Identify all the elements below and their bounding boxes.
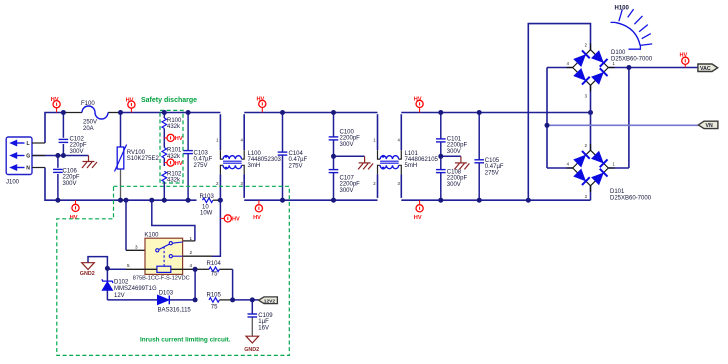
capacitor C107: [329, 170, 360, 201]
wire D100 top AC to neutral rail: [528, 24, 590, 201]
svg-text:J100: J100: [6, 180, 20, 186]
wire G earth net from connector: [32, 155, 89, 157]
capacitor C101: [436, 113, 467, 170]
wire relay bypass pin1 to neutral rail: [152, 200, 195, 241]
test point HV at VAC: [680, 53, 689, 68]
svg-text:G: G: [26, 154, 30, 160]
wire D101 bottom AC to neutral rail: [590, 186, 592, 200]
svg-text:R103: R103: [200, 194, 215, 200]
capacitor C109: [248, 300, 274, 336]
capacitor C104: [278, 113, 308, 201]
capacitor C106: [53, 156, 80, 201]
resistor R105: [207, 293, 233, 311]
wire fuse leads: [63, 112, 120, 114]
svg-text:2200pF: 2200pF: [340, 136, 361, 142]
power symbol GND2 at C109: [244, 336, 259, 353]
ground earth symbol at connector G pin: [82, 156, 97, 169]
resistor R102: [162, 171, 182, 200]
svg-text:D25XB60-7000: D25XB60-7000: [611, 57, 653, 63]
svg-text:0.47µF: 0.47µF: [485, 164, 504, 170]
svg-text:1: 1: [189, 236, 192, 241]
svg-text:R102: R102: [167, 171, 182, 177]
svg-text:432k: 432k: [167, 178, 181, 184]
svg-text:C100: C100: [340, 130, 355, 136]
svg-text:5: 5: [127, 263, 130, 268]
svg-text:D101: D101: [610, 189, 625, 195]
test point HV top rail 3: [257, 97, 266, 113]
test point HV bottom rail mid: [253, 200, 262, 221]
power symbol GND2 at relay: [80, 257, 108, 278]
svg-text:GND2: GND2: [80, 271, 95, 277]
svg-text:HV: HV: [680, 53, 688, 59]
svg-text:75: 75: [211, 272, 218, 278]
svg-text:H100: H100: [615, 6, 630, 12]
svg-text:HV: HV: [70, 215, 78, 221]
capacitor C103: [183, 113, 212, 201]
svg-text:432k: 432k: [167, 124, 181, 130]
svg-text:D102: D102: [114, 279, 129, 285]
svg-text:Inrush current limiting circui: Inrush current limiting circuit.: [140, 337, 231, 344]
svg-text:Safety discharge: Safety discharge: [141, 97, 197, 104]
test point HV top rail 2: [126, 97, 135, 112]
test point HV bottom rail left: [70, 200, 79, 221]
svg-text:300V: 300V: [340, 142, 354, 148]
svg-text:MMSZ4699T1G: MMSZ4699T1G: [114, 286, 157, 292]
svg-text:300V: 300V: [447, 182, 461, 188]
diode D103: [158, 290, 192, 313]
zener diode D102: [102, 268, 157, 300]
svg-text:F100: F100: [81, 101, 95, 107]
svg-text:L: L: [27, 141, 30, 147]
svg-text:5mH: 5mH: [405, 163, 418, 169]
varistor RV100: [115, 113, 160, 201]
svg-text:BAS316,115: BAS316,115: [158, 308, 192, 314]
connector J100: [6, 137, 45, 186]
heatsink H100: [611, 6, 653, 50]
wire VN vertical joining bridge minus pins: [547, 68, 573, 169]
svg-text:HV: HV: [414, 97, 422, 103]
svg-text:275V: 275V: [485, 170, 499, 176]
port VAC: [698, 64, 718, 72]
svg-text:C102: C102: [70, 137, 85, 143]
svg-text:C105: C105: [485, 158, 500, 164]
resistor R104: [195, 261, 233, 277]
junction dots bridge nets: [545, 65, 632, 128]
svg-text:GND2: GND2: [244, 347, 259, 353]
capacitor C100: [329, 113, 360, 170]
svg-text:HV: HV: [126, 97, 134, 103]
svg-text:12V: 12V: [114, 293, 125, 299]
test point HV top rail 4: [414, 97, 423, 113]
wire relay coil pin5: [107, 268, 126, 270]
svg-text:250V: 250V: [83, 120, 97, 126]
svg-text:R105: R105: [207, 293, 222, 299]
svg-text:300V: 300V: [447, 149, 461, 155]
safety discharge dashed box: [160, 110, 183, 183]
wire relay pin2 to R103 junction: [183, 255, 212, 257]
svg-text:3: 3: [135, 245, 138, 250]
svg-text:D25XB60-7000: D25XB60-7000: [610, 196, 652, 202]
svg-text:3mH: 3mH: [248, 163, 261, 169]
svg-text:4: 4: [189, 263, 192, 268]
svg-text:HV: HV: [253, 215, 261, 221]
resistor R101: [162, 141, 182, 166]
wire 12V2 node: [107, 299, 258, 301]
wire VAC vertical joining bridge plus pins: [609, 68, 629, 169]
svg-text:0.47µF: 0.47µF: [194, 157, 213, 163]
wire R104 to 12V2: [232, 269, 234, 300]
resistor R103 in neutral rail: [200, 194, 221, 216]
svg-text:S10K275E2: S10K275E2: [127, 156, 160, 162]
inrush current limiting dashed box: [57, 186, 289, 355]
svg-text:300V: 300V: [63, 181, 77, 187]
capacitor C108: [436, 170, 467, 201]
wire bridge AC node vertical L net: [590, 86, 592, 151]
svg-text:K100: K100: [144, 233, 159, 239]
svg-text:HV: HV: [175, 161, 183, 167]
svg-text:C101: C101: [447, 137, 462, 143]
svg-text:C103: C103: [194, 151, 209, 157]
ground earth symbol mid section 2: [441, 156, 470, 169]
svg-text:HV: HV: [414, 215, 422, 221]
bridge rectifier D101: [567, 143, 652, 202]
svg-text:R104: R104: [207, 261, 222, 267]
capacitor C102: [59, 113, 87, 156]
ground earth symbol mid section 1: [334, 156, 374, 169]
svg-text:300V: 300V: [340, 188, 354, 194]
capacitor C105: [474, 113, 504, 201]
test point HV divider b: [164, 159, 183, 167]
port VN: [698, 121, 718, 129]
wire top rail L net left section: [45, 113, 591, 144]
net label 12V2: [259, 297, 278, 305]
svg-text:R100: R100: [167, 118, 182, 124]
bridge rectifier D100: [567, 43, 653, 99]
svg-text:75: 75: [211, 305, 218, 311]
svg-text:R101: R101: [167, 148, 182, 154]
wire VAC output: [629, 67, 698, 69]
svg-text:C109: C109: [258, 313, 273, 319]
svg-text:12V2: 12V2: [264, 298, 276, 304]
svg-text:875B-1CC-F-S-12VDC: 875B-1CC-F-S-12VDC: [133, 276, 190, 282]
svg-text:220pF: 220pF: [63, 175, 80, 181]
svg-text:C106: C106: [63, 169, 78, 175]
svg-text:300V: 300V: [70, 149, 84, 155]
svg-text:275V: 275V: [194, 163, 208, 169]
svg-text:2: 2: [189, 250, 192, 255]
svg-text:220pF: 220pF: [70, 143, 87, 149]
svg-text:VN: VN: [706, 123, 713, 129]
svg-text:16V: 16V: [258, 325, 269, 331]
test point HV at relay pin2 branch: [220, 215, 240, 223]
svg-text:HV: HV: [257, 97, 265, 103]
test point HV divider a: [164, 134, 183, 142]
svg-text:N: N: [26, 166, 30, 172]
svg-text:C107: C107: [340, 176, 355, 182]
wire relay coil pin4 to resistors: [171, 268, 195, 270]
svg-text:C104: C104: [289, 151, 304, 157]
svg-text:2200pF: 2200pF: [447, 143, 468, 149]
svg-text:C108: C108: [447, 170, 462, 176]
svg-text:2200pF: 2200pF: [447, 176, 468, 182]
svg-text:HV: HV: [175, 136, 183, 142]
relay K100: [127, 233, 193, 282]
svg-text:2200pF: 2200pF: [340, 182, 361, 188]
svg-text:D103: D103: [159, 290, 174, 296]
test point HV top rail 1: [51, 97, 60, 113]
wire VN output: [547, 124, 698, 126]
svg-text:10W: 10W: [200, 210, 213, 216]
svg-text:D100: D100: [611, 50, 626, 56]
wire coil pin4 down: [194, 269, 196, 300]
wire relay pin3 to neutral rail: [125, 200, 127, 250]
junction dots main rails: [55, 110, 593, 203]
resistor R100: [162, 113, 182, 135]
svg-text:VAC: VAC: [700, 66, 711, 72]
svg-text:275V: 275V: [289, 163, 303, 169]
common mode choke L100: [216, 114, 281, 198]
svg-text:20A: 20A: [83, 126, 94, 132]
junction dots inrush circuit: [105, 266, 255, 303]
svg-text:0.47µF: 0.47µF: [289, 157, 308, 163]
test point HV bottom rail right: [414, 200, 423, 221]
fuse F100: [81, 101, 108, 132]
svg-text:1µF: 1µF: [258, 319, 269, 325]
svg-text:HV: HV: [232, 217, 240, 223]
svg-text:HV: HV: [51, 97, 59, 103]
wire bottom rail N net: [45, 168, 591, 201]
common mode choke L101: [373, 114, 438, 198]
